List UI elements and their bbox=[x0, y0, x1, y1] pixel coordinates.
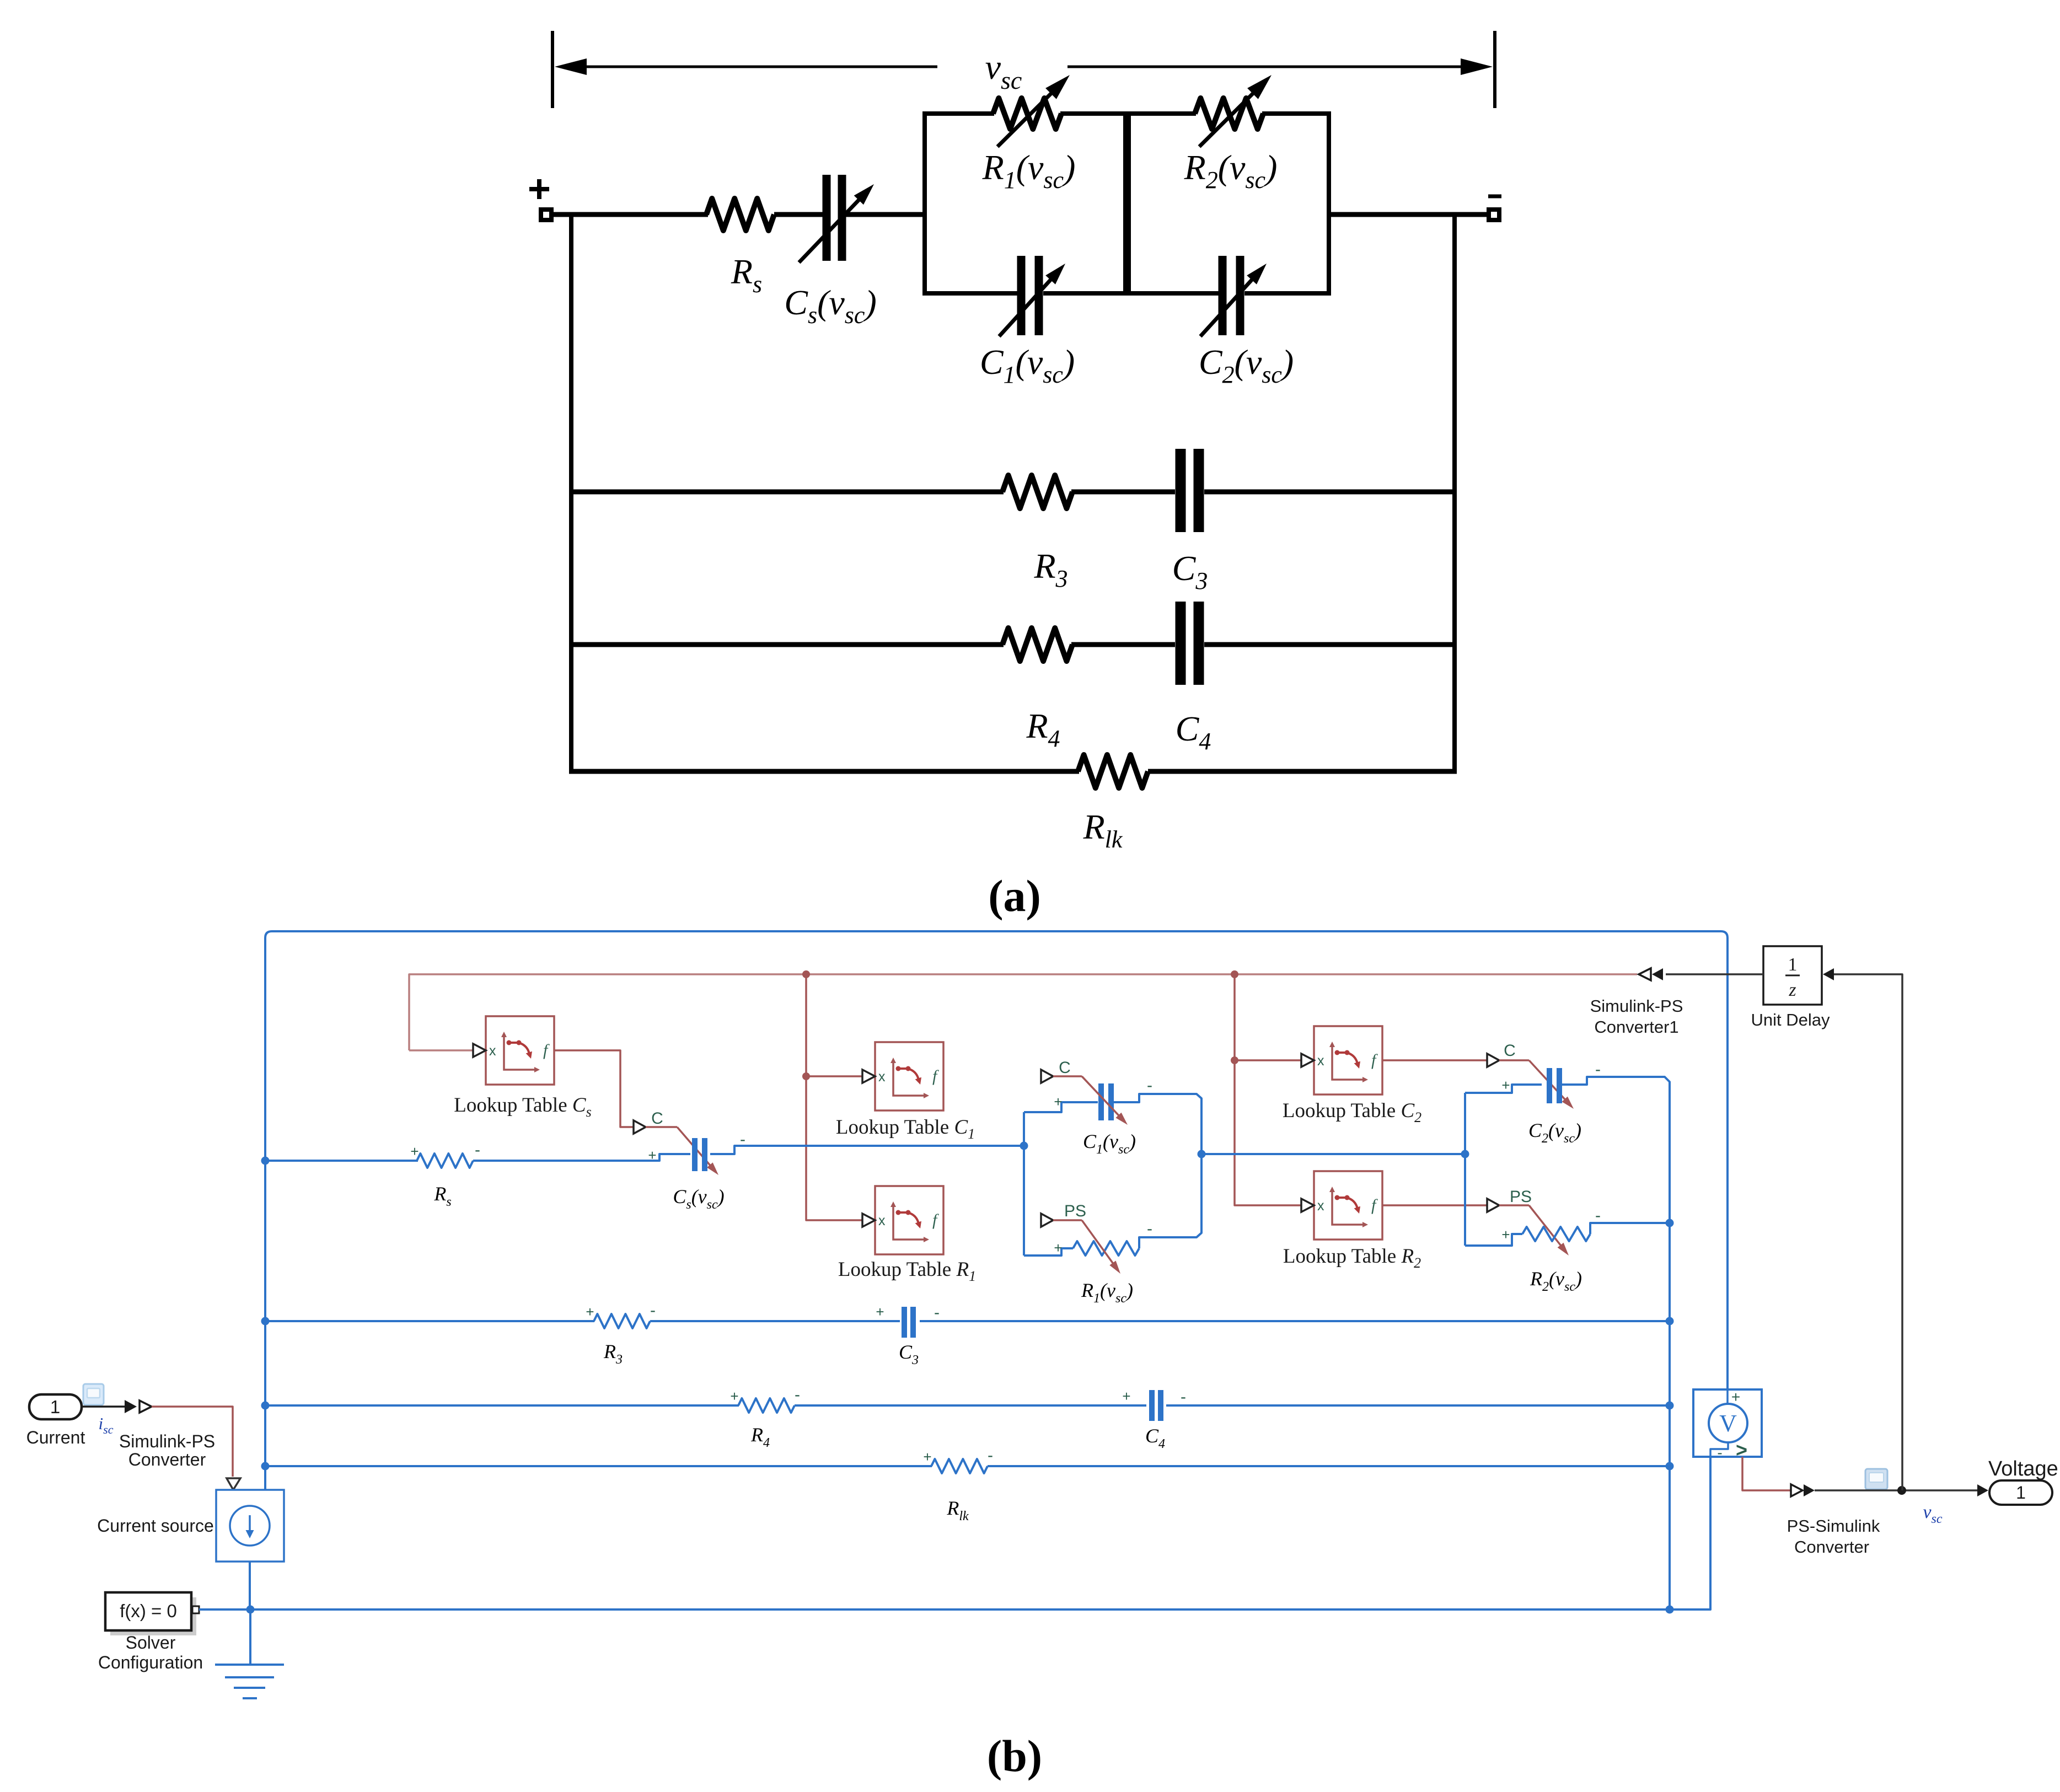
node junction right R3 bbox=[1666, 1317, 1674, 1326]
wire R2C2 box to minus terminal bbox=[1329, 212, 1489, 217]
node junction C2R2 left bbox=[1461, 1150, 1469, 1158]
svg-text:-: - bbox=[1147, 1220, 1152, 1238]
wire C control into Cs capacitor bbox=[646, 1126, 677, 1128]
wire R2C2 loop right edge bbox=[1327, 111, 1331, 296]
wire Lookup C2 output bbox=[1382, 1059, 1487, 1061]
svg-text:V: V bbox=[1719, 1410, 1737, 1437]
wire R4 to C4 bbox=[795, 1404, 1146, 1407]
resistor R1(vsc) bbox=[993, 98, 1061, 129]
svg-text:-: - bbox=[1181, 1388, 1186, 1406]
node junction C1R1 right bbox=[1198, 1150, 1206, 1158]
wire Cs capacitor to C1 node bbox=[710, 1146, 1026, 1154]
node junction output signal bbox=[1897, 1486, 1906, 1495]
node plus terminal label bbox=[529, 187, 549, 191]
resistor Rlk bbox=[1078, 755, 1148, 788]
wire C2R2 left vertical bbox=[1464, 1093, 1466, 1246]
svg-text:Converter1: Converter1 bbox=[1594, 1017, 1678, 1037]
svg-text:+: + bbox=[1054, 1240, 1062, 1256]
wire left edge to Rs bbox=[265, 1160, 418, 1162]
svg-text:-: - bbox=[1717, 1444, 1722, 1461]
wire C4 to right rail bbox=[1204, 642, 1457, 647]
wire outer loop top edge bbox=[265, 931, 1728, 1389]
wire Rlk to right rail bbox=[1148, 769, 1457, 774]
wire branch to Lookup Table C2 bbox=[1235, 1059, 1302, 1061]
wire C4 to right bbox=[1166, 1404, 1670, 1407]
svg-text:x: x bbox=[489, 1043, 496, 1059]
svg-text:x: x bbox=[1317, 1198, 1324, 1214]
svg-text:1: 1 bbox=[2016, 1483, 2026, 1503]
svg-text:+: + bbox=[586, 1303, 594, 1320]
svg-text:1: 1 bbox=[1788, 954, 1798, 975]
wire R3 row left bbox=[265, 1320, 594, 1322]
node minus terminal square bbox=[1489, 210, 1499, 220]
svg-text:Lookup Table R2: Lookup Table R2 bbox=[1283, 1245, 1421, 1271]
capacitor C3 (Simscape) bbox=[902, 1307, 907, 1338]
node physical signal down triangle into current source bbox=[227, 1478, 240, 1490]
wire R2C2 loop bottom segments bbox=[1129, 291, 1219, 296]
wire C3 to right rail bbox=[1204, 490, 1457, 495]
resistor R1(vsc) (Simscape) bbox=[1073, 1241, 1139, 1256]
resistor Rlk (Simscape) bbox=[931, 1459, 988, 1473]
node plus terminal square bbox=[541, 210, 551, 220]
svg-text:+: + bbox=[876, 1303, 884, 1320]
svg-text:Lookup Table Cs: Lookup Table Cs bbox=[454, 1094, 591, 1120]
capacitor C3 bbox=[1176, 449, 1186, 532]
wire Rlk branch left bbox=[569, 769, 1079, 774]
wire arrow through C1 bbox=[999, 273, 1056, 336]
capacitor Cs(vsc) bbox=[823, 175, 831, 261]
svg-text:Lookup Table R1: Lookup Table R1 bbox=[838, 1258, 976, 1284]
wire current source bottom to ground bus bbox=[249, 1562, 251, 1609]
wire vsc dimension line left segment with arrowhead bbox=[584, 66, 937, 68]
wire R3 to C3 bbox=[650, 1320, 900, 1322]
wire C2 capacitor to right vertical bbox=[1559, 1077, 1670, 1223]
resistor R3 (Simscape) bbox=[594, 1314, 650, 1328]
node C input triangle for C2 bbox=[1487, 1054, 1499, 1067]
wire R4 row left bbox=[265, 1404, 739, 1407]
wire R1C1 loop top segments bbox=[925, 111, 994, 116]
wire R1C1 loop right edge / node between boxes bbox=[1123, 111, 1128, 296]
svg-text:+: + bbox=[1054, 1093, 1062, 1110]
current source block bbox=[216, 1490, 284, 1562]
wire C1R1 top branch to capacitor bbox=[1024, 1102, 1098, 1112]
solver configuration block bbox=[110, 1597, 196, 1635]
svg-text:C: C bbox=[1059, 1059, 1071, 1077]
wire converter to current source bbox=[152, 1407, 233, 1477]
svg-text:f(x) = 0: f(x) = 0 bbox=[120, 1601, 177, 1621]
svg-text:+: + bbox=[1122, 1388, 1130, 1404]
node vsc-dimension left tick bbox=[551, 31, 554, 108]
wire Rs to Cs bbox=[774, 212, 824, 217]
wire feedback junction at x2239 bbox=[1231, 970, 1238, 978]
svg-text:+: + bbox=[730, 1388, 738, 1404]
wire right vertical rail bbox=[1452, 212, 1457, 774]
node junction left Rlk bbox=[261, 1462, 270, 1471]
svg-text:+: + bbox=[648, 1147, 656, 1163]
svg-text:x: x bbox=[878, 1213, 886, 1228]
wire Rlk to right bbox=[988, 1465, 1670, 1467]
node Simulink-PS Converter triangle bbox=[140, 1401, 152, 1413]
svg-text:C: C bbox=[1504, 1042, 1516, 1060]
svg-text:Current: Current bbox=[26, 1428, 85, 1447]
node C input triangle for C1 bbox=[1041, 1070, 1053, 1083]
wire feedback drop to Lookup Table Cs bbox=[409, 1049, 474, 1051]
svg-text:z: z bbox=[1788, 980, 1796, 1000]
lookup table Cs block bbox=[486, 1016, 554, 1085]
svg-text:(a): (a) bbox=[988, 871, 1041, 921]
svg-text:Lookup Table C1: Lookup Table C1 bbox=[836, 1116, 975, 1142]
node vsc-dimension right tick bbox=[1493, 31, 1496, 108]
wire R2C2 loop top segments bbox=[1129, 111, 1196, 116]
wire vsc dimension line right segment with arrowhead bbox=[1067, 66, 1464, 68]
wire C control into C1 capacitor bbox=[1053, 1075, 1082, 1077]
wire Current to Simulink-PS Converter bbox=[82, 1405, 126, 1408]
svg-text:x: x bbox=[1317, 1053, 1324, 1069]
wire vsc feedback line bbox=[409, 974, 1637, 1050]
svg-text:-: - bbox=[1147, 1076, 1152, 1094]
node C input triangle for Cs bbox=[634, 1120, 646, 1134]
resistor R3 bbox=[1002, 475, 1072, 508]
wire R3 branch left bbox=[569, 490, 1004, 495]
wire Lookup Cs output bbox=[554, 1050, 634, 1127]
node junction right R4 bbox=[1666, 1402, 1674, 1410]
wire Cs to R1C1 box bbox=[846, 212, 927, 217]
wire C1 capacitor to right vertical bbox=[1114, 1094, 1201, 1154]
node PS-Simulink Converter triangle bbox=[1791, 1484, 1803, 1496]
svg-text:-: - bbox=[475, 1141, 480, 1159]
wire PS control into R1 resistor bbox=[1053, 1219, 1082, 1221]
capacitor C2(vsc) (Simscape) bbox=[1547, 1068, 1552, 1103]
wire C2R2 bottom branch to resistor bbox=[1465, 1234, 1522, 1246]
node junction dot C1 branch bbox=[802, 1072, 810, 1080]
wire Rs to Cs capacitor bbox=[473, 1154, 690, 1161]
wire R1 resistor to right vertical bbox=[1139, 1154, 1201, 1248]
svg-text:x: x bbox=[878, 1069, 886, 1085]
capacitor C4 bbox=[1176, 602, 1186, 685]
wire R4 to C4 bbox=[1071, 642, 1175, 647]
resistor R2(vsc) bbox=[1195, 98, 1263, 129]
wire branch to Lookup Table C1 bbox=[806, 1075, 863, 1077]
wire outer loop left edge lower bbox=[264, 1161, 266, 1491]
lookup table R2 block bbox=[1314, 1171, 1382, 1240]
svg-text:1: 1 bbox=[50, 1397, 60, 1417]
node PS input triangle for R1 bbox=[1041, 1214, 1053, 1227]
wire converter to output port bbox=[1815, 1489, 1978, 1491]
node junction ground bus right bbox=[1666, 1606, 1674, 1614]
capacitor C4 (Simscape) bbox=[1149, 1390, 1155, 1421]
node junction C1R1 left bbox=[1020, 1142, 1028, 1150]
wire R1C1 loop bottom segments bbox=[925, 291, 1017, 296]
wire from plus terminal to Rs bbox=[551, 212, 708, 217]
lookup table R1 block bbox=[875, 1186, 943, 1254]
svg-text:-: - bbox=[988, 1446, 993, 1464]
wire C3 to right bbox=[920, 1320, 1670, 1322]
lookup table C1 block bbox=[875, 1042, 943, 1110]
ground bbox=[249, 1609, 251, 1665]
svg-text:Voltage: Voltage bbox=[1988, 1457, 2058, 1480]
wire R1C1 loop left edge bbox=[922, 111, 927, 296]
wire converter output arrowhead bbox=[1804, 1484, 1815, 1496]
wire R3 to C3 bbox=[1071, 490, 1175, 495]
node junction C2R2 right bbox=[1666, 1219, 1674, 1227]
wire left vertical rail bbox=[569, 212, 573, 774]
unit delay block bbox=[1763, 946, 1822, 1005]
svg-text:Simulink-PS: Simulink-PS bbox=[1590, 996, 1683, 1016]
resistor Rs bbox=[706, 198, 774, 230]
wire R4 branch left bbox=[569, 642, 1004, 647]
svg-text:Configuration: Configuration bbox=[98, 1652, 203, 1672]
resistor R2(vsc) (Simscape) bbox=[1522, 1227, 1590, 1241]
wire arrow through Cs bbox=[799, 194, 865, 262]
svg-text:-: - bbox=[650, 1301, 656, 1319]
node junction left R4 bbox=[261, 1402, 270, 1410]
wire C1R1 left vertical bbox=[1023, 1112, 1025, 1256]
node scope icon at output bbox=[1865, 1469, 1887, 1489]
node PS input triangle for R2 bbox=[1487, 1199, 1499, 1212]
svg-text:+: + bbox=[410, 1143, 419, 1160]
wire R2C2 loop left edge bbox=[1126, 111, 1131, 296]
svg-text:PS-Simulink: PS-Simulink bbox=[1787, 1516, 1880, 1536]
node scope icon at Current bbox=[83, 1384, 104, 1405]
wire unit delay output to converter1 bbox=[1666, 973, 1763, 975]
wire C control into C2 capacitor bbox=[1499, 1059, 1529, 1061]
wire feedback junction at x1462 bbox=[802, 970, 810, 978]
svg-text:Lookup Table C2: Lookup Table C2 bbox=[1283, 1099, 1421, 1125]
capacitor Cs(vsc) (Simscape) bbox=[692, 1138, 698, 1171]
node junction outer left and Rs row bbox=[261, 1157, 270, 1165]
svg-text:Converter: Converter bbox=[128, 1450, 206, 1469]
capacitor C1(vsc) (Simscape) bbox=[1098, 1083, 1104, 1120]
node Simulink-PS Converter1 triangle bbox=[1639, 968, 1651, 980]
svg-text:+: + bbox=[923, 1448, 931, 1465]
svg-text:PS: PS bbox=[1510, 1188, 1532, 1206]
node output port Voltage bbox=[1989, 1480, 2052, 1505]
svg-text:Solver: Solver bbox=[126, 1633, 176, 1652]
wire output to unit delay bbox=[1831, 974, 1902, 1490]
wire vertical to Lookup tables C2 R2 bbox=[1235, 974, 1302, 1205]
wire arrow through C2 bbox=[1200, 273, 1258, 336]
wire vertical to Lookup tables C1 R1 bbox=[806, 974, 863, 1220]
svg-text:Unit Delay: Unit Delay bbox=[1751, 1010, 1830, 1029]
wire ground bus bbox=[250, 1457, 1710, 1609]
node input port Current bbox=[29, 1394, 82, 1419]
lookup table C2 block bbox=[1314, 1026, 1382, 1094]
wire Rlk row left bbox=[265, 1465, 932, 1467]
wire right vertical rail (b) bbox=[1669, 1223, 1671, 1609]
svg-text:Simulink-PS: Simulink-PS bbox=[119, 1431, 215, 1451]
svg-text:(b): (b) bbox=[987, 1731, 1042, 1781]
svg-text:-: - bbox=[1595, 1060, 1601, 1079]
node junction right Rlk bbox=[1666, 1462, 1674, 1471]
wire sensor to PS-Simulink converter bbox=[1742, 1457, 1791, 1490]
svg-text:-: - bbox=[795, 1386, 800, 1404]
svg-text:-: - bbox=[1595, 1206, 1601, 1225]
node junction dot C2 branch bbox=[1231, 1056, 1238, 1064]
node junction ground bus left bbox=[246, 1606, 255, 1614]
resistor Rs (Simscape) bbox=[417, 1153, 473, 1168]
svg-text:+: + bbox=[1731, 1388, 1740, 1405]
svg-text:C: C bbox=[651, 1109, 663, 1128]
svg-text:Converter: Converter bbox=[1794, 1537, 1869, 1557]
wire arrow through R1 bbox=[997, 86, 1059, 147]
wire solver to ground junction bbox=[199, 1608, 250, 1611]
svg-text:PS: PS bbox=[1064, 1202, 1086, 1220]
svg-text:Current source: Current source bbox=[97, 1516, 214, 1536]
wire R2 resistor to right junction bbox=[1590, 1223, 1670, 1234]
wire C2R2 top branch to capacitor bbox=[1465, 1085, 1542, 1093]
resistor R4 bbox=[1002, 628, 1072, 661]
capacitor C1(vsc) bbox=[1017, 256, 1026, 335]
wire PS control into R2 resistor bbox=[1499, 1204, 1529, 1206]
voltage sensor block bbox=[1693, 1389, 1762, 1457]
wire arrow through R2 bbox=[1199, 86, 1260, 147]
svg-text:+: + bbox=[1501, 1226, 1510, 1243]
capacitor C2(vsc) bbox=[1219, 256, 1227, 335]
wire C1R1 node to C2R2 node bbox=[1201, 1153, 1465, 1155]
resistor R4 (Simscape) bbox=[738, 1398, 795, 1413]
node minus terminal label bbox=[1488, 195, 1501, 198]
svg-text:-: - bbox=[934, 1303, 940, 1322]
wire Lookup R2 output bbox=[1382, 1204, 1487, 1206]
wire C1R1 bottom branch to resistor bbox=[1024, 1248, 1073, 1256]
node junction left R3 bbox=[261, 1317, 270, 1326]
svg-text:+: + bbox=[1501, 1077, 1510, 1093]
